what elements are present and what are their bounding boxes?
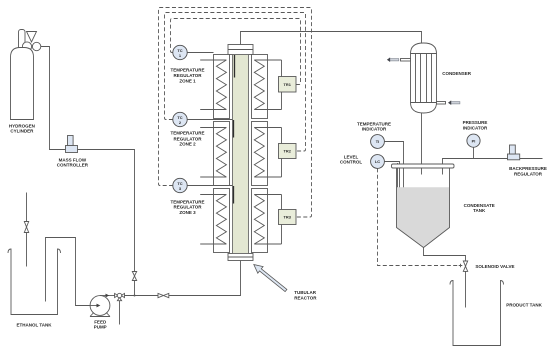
- wire: ethanol feed inlet: [26, 193, 28, 267]
- hydrogen cylinder valve knob left: [22, 42, 31, 51]
- wire: feed line to valve: [125, 295, 159, 297]
- back pressure regulator body: [508, 154, 520, 160]
- svg-text:TEMPERATURE: TEMPERATURE: [171, 130, 205, 135]
- svg-text:CYLINDER: CYLINDER: [10, 129, 34, 134]
- condenser tubes: [416, 54, 432, 103]
- condenser coolant outlet nozzle: [401, 59, 411, 62]
- ethanol tank: [8, 249, 61, 315]
- instrument text TC2: [177, 115, 182, 125]
- temperature regulator TR1: [279, 77, 297, 93]
- heater box zone 3 left: [214, 189, 230, 253]
- svg-text:TR2: TR2: [284, 149, 292, 154]
- feed pump: [90, 296, 110, 316]
- wire: reactor top to condenser: [241, 32, 422, 45]
- thermocouple probe zone 3: [233, 186, 235, 204]
- svg-text:CONDENSATE: CONDENSATE: [464, 203, 495, 208]
- svg-text:INDICATOR: INDICATOR: [463, 125, 488, 130]
- svg-text:ZONE 2: ZONE 2: [179, 142, 196, 147]
- coolant outlet arrow: [390, 59, 399, 61]
- svg-text:TEMPERATURE: TEMPERATURE: [171, 199, 205, 204]
- svg-text:FEED: FEED: [94, 319, 107, 324]
- mass flow controller head: [68, 136, 74, 146]
- wire: mass flow controller to feed line: [78, 150, 135, 296]
- reactor top flange: [228, 45, 253, 55]
- instrument text TC3: [177, 181, 182, 191]
- svg-text:LC: LC: [375, 159, 380, 164]
- svg-text:REGULATOR: REGULATOR: [173, 73, 202, 78]
- hydrogen cylinder regulator funnel: [27, 32, 37, 43]
- coolant inlet arrow: [451, 102, 460, 104]
- svg-text:TANK: TANK: [473, 208, 486, 213]
- heater element zone 1 left: [216, 60, 226, 110]
- control loop TC3-TR3 dashed: [159, 8, 312, 218]
- heater element zone 1 right: [254, 60, 264, 110]
- level control LC: [371, 155, 385, 169]
- svg-text:TR1: TR1: [284, 82, 292, 87]
- control loop TC1-TR1 dashed: [171, 19, 301, 85]
- solenoid valve: [463, 261, 467, 266]
- back pressure regulator head: [510, 145, 516, 154]
- hydrogen cylinder valve knob right: [32, 42, 40, 50]
- thermocouple TC3: [173, 178, 187, 192]
- svg-text:CONDENSER: CONDENSER: [442, 71, 472, 76]
- svg-text:CONTROL: CONTROL: [340, 160, 362, 165]
- svg-text:ZONE 3: ZONE 3: [179, 210, 196, 215]
- tubular reactor tube: [233, 55, 249, 254]
- svg-text:INDICATOR: INDICATOR: [362, 126, 387, 131]
- temperature indicator TI: [371, 135, 385, 149]
- svg-text:REGULATOR: REGULATOR: [514, 171, 543, 176]
- dashed control line LC to solenoid valve: [378, 168, 459, 265]
- valve V3 on feed line: [158, 293, 163, 297]
- condenser coolant inlet nozzle: [437, 102, 446, 105]
- heater element zone 2 right: [254, 128, 264, 178]
- temperature regulator TR2: [279, 144, 297, 159]
- wire: pump outlet: [100, 295, 115, 297]
- svg-text:BACKPRESSURE: BACKPRESSURE: [509, 166, 547, 171]
- heater box zone 1 right: [252, 55, 268, 119]
- thermocouple probe zone 2: [233, 120, 235, 138]
- thermocouple TC1: [173, 45, 187, 59]
- three-way valve: [115, 293, 118, 297]
- mass flow controller body: [66, 146, 78, 153]
- wire: suction dip tube to feed pump: [46, 238, 91, 306]
- heater element zone 3 left: [216, 195, 226, 245]
- thermocouple probe zone 1: [234, 55, 236, 78]
- valve V2 on hydrogen line: [132, 272, 136, 277]
- pressure indicator PI: [467, 134, 480, 147]
- condensate tank shell: [397, 168, 450, 248]
- tubular reactor pointer arrow: [254, 265, 287, 292]
- wire: cylinder to mass flow controller: [41, 47, 66, 150]
- wire: tank vapor outlet to pressure line: [443, 159, 543, 175]
- control loop TC2-TR2 dashed: [165, 13, 306, 152]
- svg-text:TEMPERATURE: TEMPERATURE: [171, 67, 205, 72]
- wire: drain line: [119, 301, 121, 325]
- reactor bottom flange: [228, 254, 253, 261]
- heater box zone 1 left: [214, 55, 230, 119]
- svg-text:ETHANOL TANK: ETHANOL TANK: [16, 323, 52, 328]
- svg-text:ZONE 1: ZONE 1: [179, 79, 196, 84]
- svg-text:CONTROLLER: CONTROLLER: [57, 162, 89, 167]
- svg-text:SOLENOID VALVE: SOLENOID VALVE: [475, 264, 514, 269]
- svg-text:TR3: TR3: [284, 215, 292, 220]
- svg-text:REACTOR: REACTOR: [294, 296, 317, 301]
- wire: condensate tank cone outlet to solenoid valve: [424, 248, 466, 262]
- thermocouple TC2: [173, 112, 187, 126]
- svg-text:TI: TI: [376, 139, 379, 144]
- valve V1 on ethanol inlet: [24, 222, 28, 228]
- junction: [134, 295, 136, 297]
- heater element zone 2 left: [216, 128, 226, 178]
- heater box zone 2 left: [214, 122, 230, 186]
- heater box zone 2 right: [252, 122, 268, 186]
- condenser shell: [411, 54, 437, 103]
- svg-text:PI: PI: [472, 138, 476, 143]
- instrument text TC1: [177, 48, 182, 58]
- condensate tank lid: [392, 164, 455, 168]
- svg-text:PRODUCT TANK: PRODUCT TANK: [506, 302, 542, 307]
- hydrogen cylinder valve stem: [19, 30, 26, 50]
- svg-text:TUBULAR: TUBULAR: [294, 290, 316, 295]
- product tank: [450, 281, 504, 346]
- wire: condenser outlet to condensate tank: [421, 113, 423, 175]
- wire: feed line to reactor bottom: [169, 261, 241, 296]
- heater element zone 3 right: [254, 195, 264, 245]
- condensate tank liquid: [397, 187, 449, 246]
- wire: solenoid valve to product tank: [465, 271, 467, 307]
- temperature regulator TR3: [279, 210, 297, 225]
- hydrogen cylinder body: [11, 48, 34, 120]
- svg-text:PUMP: PUMP: [94, 325, 107, 330]
- heater box zone 3 right: [252, 189, 268, 253]
